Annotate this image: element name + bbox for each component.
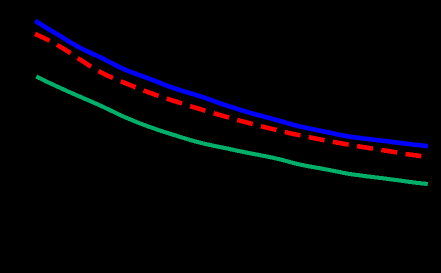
curve blue solid (top) <box>35 21 428 146</box>
curve red dashed (middle) <box>35 34 421 156</box>
curve green solid (bottom) <box>36 77 428 185</box>
